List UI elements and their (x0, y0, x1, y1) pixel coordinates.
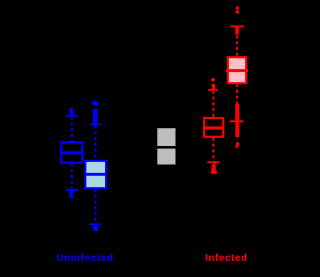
B5 upper whisker (236, 35, 238, 55)
B1 box (61, 142, 82, 162)
B3 lower box half (157, 149, 175, 165)
B4 lower whisker (212, 138, 214, 161)
B3 upper box half (157, 128, 175, 146)
B2 lower whisker (95, 189, 97, 224)
B2 upper cap (90, 124, 101, 126)
B2 upper whisker (95, 125, 97, 160)
B4 upper outlier dots (211, 78, 215, 90)
B5 upper outlier dots (236, 6, 239, 13)
B2 lower outlier dot cluster (93, 226, 98, 231)
B1 median (60, 151, 83, 154)
boxplot B5 (pink filled) (226, 6, 248, 148)
B5 box (228, 57, 246, 83)
B1 upper outlier dots (69, 108, 74, 115)
B5 upper cap (230, 25, 244, 27)
B5 lowest outlier dots (235, 142, 239, 148)
B5 lower cap (230, 120, 244, 122)
B2 lower cap (90, 223, 102, 225)
B2 upper outlier stack bar (93, 109, 98, 124)
B4 lower outlier dots (211, 161, 217, 174)
B5 upper outlier stack bar (235, 27, 239, 34)
B5 median (226, 69, 248, 72)
B5 lower outlier stack bar (235, 104, 239, 137)
B1 upper cap (66, 115, 78, 117)
B2 median (85, 173, 107, 176)
B4 upper cap (208, 89, 218, 91)
B4 lower cap (207, 161, 219, 163)
B5 lower whisker (236, 84, 238, 105)
boxplot B4 (red, open) (203, 78, 224, 174)
B2 box (85, 161, 106, 188)
B4 upper whisker (212, 91, 214, 117)
B1 lower outlier dots (69, 191, 74, 199)
B4 box (204, 118, 223, 137)
boxplot B2 (lightblue filled) (85, 101, 107, 231)
B4 median (203, 126, 224, 129)
boxplot B1 (dark blue, open) (60, 108, 83, 199)
svg-text:Infected: Infected (205, 253, 247, 264)
B1 lower cap (66, 189, 78, 191)
boxplot B3 (gray filled, black border invisible) (157, 128, 175, 164)
B1 lower whisker (71, 163, 73, 189)
B1 upper whisker (71, 117, 73, 142)
B2 upper outlier dot pair (92, 101, 99, 106)
svg-text:Uninfected: Uninfected (56, 253, 113, 264)
